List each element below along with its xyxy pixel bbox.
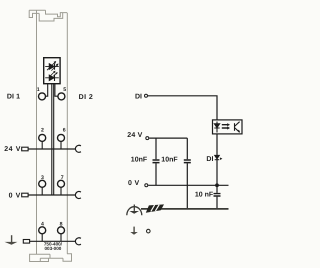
terminal 7 <box>58 180 65 187</box>
module 750-400 outline top contour <box>29 10 67 21</box>
earth clamp fork <box>75 238 80 245</box>
earth wire-entry square <box>23 240 29 244</box>
svg-text:DI: DI <box>135 94 142 101</box>
stub terminal 3 to 0V rail <box>41 187 43 195</box>
svg-text:8: 8 <box>60 222 63 228</box>
svg-text:10nF: 10nF <box>161 156 178 163</box>
capacitor C3 plates <box>214 194 221 196</box>
LED box U1 <box>44 58 60 84</box>
module right edge <box>66 13 68 254</box>
svg-text:1: 1 <box>37 87 40 93</box>
legend circle <box>147 229 151 233</box>
terminal 5 <box>58 93 65 100</box>
optocoupler light arrows <box>222 123 230 130</box>
junction dot 0V/opto <box>215 183 219 187</box>
capacitor C2 wire (24V through 0V to shield) <box>186 138 188 209</box>
wire: box center-right lead down to 0V rail <box>53 84 55 195</box>
earth potential arrow (left of rail) <box>5 235 18 245</box>
terminal 6 <box>58 134 65 141</box>
svg-text:5: 5 <box>63 87 66 93</box>
wire: box left lead to terminal 1 <box>46 84 48 96</box>
LED DI2 symbol (bottom, in box) <box>45 71 59 81</box>
terminal 2 <box>39 134 46 141</box>
terminal 1 <box>39 93 46 100</box>
0V wire-entry square <box>22 193 28 197</box>
24V clamp fork <box>75 145 80 152</box>
wire opto cathode down through C3 to shield line <box>216 134 218 209</box>
shield clamp wedge <box>146 204 164 212</box>
stub terminal 6 to 24V rail <box>60 141 62 149</box>
svg-text:DI 2: DI 2 <box>79 94 94 101</box>
optocoupler phototransistor <box>235 122 240 133</box>
capacitor C2 plates <box>184 160 191 163</box>
svg-text:0 V: 0 V <box>9 192 21 199</box>
svg-text:2: 2 <box>41 128 44 134</box>
svg-text:24 V: 24 V <box>127 132 142 139</box>
svg-text:6: 6 <box>63 128 66 134</box>
legend earth arrow <box>130 227 138 235</box>
svg-text:3: 3 <box>41 175 44 181</box>
optocoupler box U2 <box>213 120 243 134</box>
svg-text:10 nF: 10 nF <box>195 192 214 199</box>
terminal 8 <box>58 227 65 234</box>
24V input circle <box>146 137 149 140</box>
svg-text:4: 4 <box>41 222 44 228</box>
stub terminal 8 to earth rail <box>60 234 62 242</box>
LED DI1 symbol (top, in box) <box>45 61 59 71</box>
svg-text:7: 7 <box>61 175 64 181</box>
stub terminal 4 to earth rail <box>41 234 43 242</box>
earth rail <box>30 240 76 242</box>
svg-text:DI 1: DI 1 <box>7 94 20 101</box>
module bottom contour <box>30 254 72 262</box>
wire: box center-left lead down to 0V rail <box>51 84 53 195</box>
stub terminal 2 to 24V rail <box>41 141 43 149</box>
DI input circle <box>145 94 148 97</box>
svg-text:24 V: 24 V <box>4 146 21 153</box>
optocoupler LED (inside box) <box>214 122 219 133</box>
LED DI on wire <box>215 155 223 160</box>
terminal 3 <box>39 180 46 187</box>
svg-text:DI: DI <box>206 156 213 163</box>
stub terminal 7 to 0V rail <box>60 187 62 195</box>
module order number text <box>44 242 63 251</box>
shield line <box>141 208 229 210</box>
module left edge <box>36 10 38 254</box>
svg-text:10nF: 10nF <box>131 156 148 163</box>
terminal 4 <box>39 227 46 234</box>
24V wire <box>149 137 187 139</box>
svg-text:0 V: 0 V <box>128 180 139 187</box>
wire DI to optocoupler <box>148 96 217 120</box>
functional-earth circle symbol <box>127 205 142 216</box>
0V clamp fork <box>75 192 80 199</box>
0V rail <box>28 194 76 196</box>
0V input circle <box>145 184 148 187</box>
24V wire-entry square <box>22 147 28 151</box>
24V rail <box>28 148 76 150</box>
wire: box right lead to terminal 5 <box>55 84 58 96</box>
capacitor C1 wire (24V to 0V) <box>155 138 157 185</box>
0V wire <box>148 184 228 186</box>
svg-text:003-000: 003-000 <box>44 246 61 251</box>
capacitor C1 plates <box>153 160 160 163</box>
